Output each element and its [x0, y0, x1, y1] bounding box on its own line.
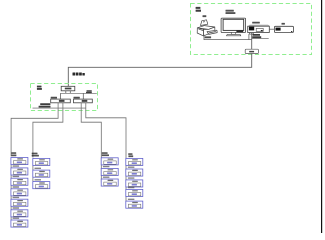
camera unit C4-4 [126, 189, 143, 196]
camera unit C1-6 [11, 210, 28, 217]
room label text (2 lines) [196, 7, 201, 12]
camera unit C1-6 label [13, 207, 20, 208]
camera unit C3-3 [101, 179, 118, 186]
wire DVR to modem [269, 28, 274, 30]
column 1 riser [10, 158, 12, 224]
camera unit C4-1 [126, 158, 143, 165]
bottom annotation text (2 lines) [39, 103, 51, 107]
camera unit C3-3 label [103, 177, 110, 178]
modem label [282, 23, 285, 25]
hard-disk recorder DVR [248, 25, 270, 34]
camera unit C1-7 label [13, 218, 20, 219]
bus drops to distributors [60, 93, 62, 99]
camera unit C2-3 [33, 182, 50, 189]
riser continues to horizontal run [68, 54, 251, 87]
main riser wire from DVR down [251, 33, 253, 50]
camera unit C2-3 label [35, 179, 42, 180]
column 4 riser [125, 159, 127, 205]
camera unit C3-2 [101, 168, 118, 175]
modem / terminal device [274, 26, 293, 32]
column 3 header label [102, 152, 109, 156]
camera unit C4-3 label [128, 177, 134, 178]
DVR label [252, 22, 260, 24]
hub bottom stubs [65, 91, 67, 94]
cable annotation leader [252, 37, 269, 39]
camera unit C1-4 label [13, 186, 20, 187]
feeder wire 4 (to column 4) [86, 103, 126, 159]
bottom annotation leader line [33, 107, 86, 109]
monitor label (2 lines) [226, 10, 236, 14]
camera unit C1-5 label [13, 197, 20, 198]
camera unit C4-2 [126, 169, 143, 176]
camera unit C4-5 [126, 201, 143, 208]
printer P1 [197, 20, 217, 36]
distributor label left [51, 97, 57, 99]
feeder wire 3 (to column 3) [81, 103, 101, 158]
printer label (above) [203, 15, 207, 17]
camera unit C4-4 label [128, 187, 134, 188]
camera unit C2-2 [33, 170, 50, 177]
camera unit C1-5 [11, 199, 28, 206]
column 2 riser [32, 158, 34, 185]
camera unit C3-1 [101, 158, 118, 165]
monitoring-room dashed boundary (green box A) [191, 4, 312, 55]
video cable label on horizontal run [73, 73, 85, 76]
camera unit C1-2 label [13, 165, 20, 166]
camera unit C4-2 label [128, 167, 134, 168]
feeder wire 1 (to column 1) [11, 103, 58, 157]
camera unit C1-1 [11, 158, 28, 165]
printer name text (below) [205, 36, 211, 38]
leader label (2 lines) [86, 90, 92, 93]
column 4 header label [128, 153, 133, 157]
camera unit C1-3 [11, 178, 28, 185]
column 3 riser [100, 158, 102, 183]
wire stub up to DVR foot [248, 34, 250, 40]
camera unit C1-7 [11, 220, 28, 227]
weak-current well dashed boundary (green box B) [31, 84, 98, 111]
lightning protector box on riser [245, 49, 258, 53]
camera unit C4-5 label [128, 199, 134, 200]
camera unit C1-3 label [13, 176, 20, 177]
video distributor right [74, 99, 93, 103]
camera unit C1-4 [11, 189, 28, 196]
feeder wire 2 (to column 2) [33, 103, 63, 158]
wire printer to DVR [204, 35, 252, 40]
hub box [61, 86, 75, 91]
video distributor left [51, 99, 71, 103]
camera unit C3-2 label [103, 166, 110, 167]
distributor label right [74, 97, 80, 99]
distribution bus with leader to border [61, 92, 97, 94]
camera unit C1-2 [11, 168, 28, 175]
camera unit C4-3 [126, 180, 143, 187]
column 2 header label [32, 153, 39, 157]
camera unit C2-1 [33, 158, 50, 165]
camera unit C2-2 label [35, 168, 42, 169]
drawing frame right edge [321, 0, 323, 233]
column 1 header label [11, 152, 16, 156]
monitor M1 [221, 18, 246, 36]
box B label text (2 lines) [37, 86, 42, 90]
